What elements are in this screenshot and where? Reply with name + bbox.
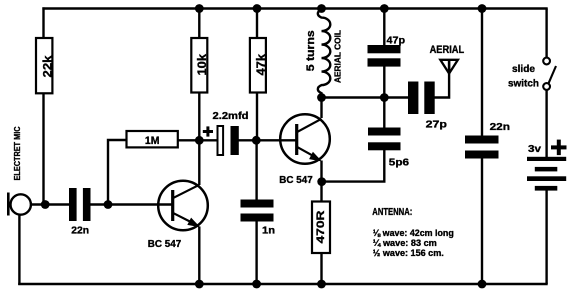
wire mic output row (31, 203, 70, 205)
svg-text:AERIAL: AERIAL (430, 44, 465, 56)
wire 1M feedback drop (108, 140, 127, 205)
node top 22n (478, 4, 487, 13)
transistor Q1 BC547 (148, 181, 208, 250)
wire bottom ground rail (18, 283, 548, 285)
electret mic M1 (8, 193, 31, 216)
node Q1 base (104, 200, 113, 209)
slide switch S1 (508, 58, 556, 90)
capacitor C5 5p6 (368, 128, 409, 169)
wire 2.2mfd to 47k node (239, 139, 257, 141)
svg-text:47p: 47p (387, 34, 406, 46)
wire left column (22k branch) (42, 7, 44, 204)
svg-text:¼ wave: 83 cm: ¼ wave: 83 cm (373, 238, 437, 248)
node ground Q1 (195, 280, 204, 289)
node Q2 collector (317, 93, 326, 102)
capacitor C7 22n (output) (465, 121, 510, 159)
svg-text:22n: 22n (490, 121, 510, 133)
wire switch to battery (545, 90, 547, 157)
wire 47p column top (383, 9, 385, 46)
wire 22n output to ground (481, 158, 483, 284)
svg-text:5p6: 5p6 (389, 156, 409, 168)
svg-text:22n: 22n (71, 224, 89, 236)
wire node to 5p6 (383, 98, 385, 129)
wire 22n output column (481, 9, 483, 136)
wire Q1 emitter to ground (198, 227, 200, 285)
wire 1n to ground (255, 221, 257, 284)
svg-text:1M: 1M (145, 135, 160, 147)
svg-text:⅛ wave: 42cm long: ⅛ wave: 42cm long (373, 228, 454, 238)
capacitor C4 47p (368, 34, 406, 66)
capacitor C3 1n (241, 200, 276, 237)
svg-text:47k: 47k (256, 53, 268, 75)
node ground 1n (252, 280, 261, 289)
wire node to 2.2mfd (199, 139, 217, 141)
wire 470R to ground (320, 253, 322, 285)
svg-text:1n: 1n (262, 224, 275, 236)
resistor 22k (36, 38, 54, 93)
resistor 10k (191, 38, 209, 93)
node top 47k (253, 4, 262, 13)
svg-text:2.2mfd: 2.2mfd (213, 111, 249, 122)
wire switch feed (545, 9, 547, 58)
inductor L1 aerial coil 5 turns (305, 10, 343, 98)
svg-text:470R: 470R (315, 210, 327, 243)
wire top supply rail (42, 7, 547, 9)
capacitor C6 27p (408, 82, 447, 131)
node top coil (317, 4, 326, 13)
wire 27p to aerial (435, 61, 450, 98)
svg-text:switch: switch (508, 78, 539, 90)
node Q2 emitter (317, 177, 326, 186)
svg-text:ANTENNA:: ANTENNA: (372, 207, 412, 218)
svg-text:10k: 10k (197, 53, 209, 75)
capacitor C1 22n (input) (69, 188, 91, 236)
svg-text:slide: slide (512, 63, 535, 75)
wire Q2 collector (320, 98, 322, 119)
node Q2 base (252, 136, 261, 145)
wire Q1 collector (198, 141, 200, 186)
svg-text:AERIAL COIL: AERIAL COIL (333, 30, 342, 83)
svg-text:ELECTRET MIC: ELECTRET MIC (12, 127, 22, 181)
svg-text:5 turns: 5 turns (305, 30, 317, 71)
svg-text:22k: 22k (42, 55, 54, 78)
node Q1 collector (195, 136, 204, 145)
wire 22n to Q1 base (90, 203, 172, 205)
node tank (380, 93, 389, 102)
wire 47k node down to 1n (255, 140, 257, 199)
node ground 470R (317, 280, 326, 289)
battery B1 3V (527, 140, 567, 191)
svg-text:BC 547: BC 547 (279, 174, 313, 186)
resistor 47k (250, 38, 268, 93)
node mic bias (41, 200, 50, 209)
antenna note text (372, 207, 454, 258)
wire 10k column (198, 9, 200, 141)
node ground 22n (478, 280, 487, 289)
wire node to Q2 base (256, 139, 296, 141)
wire battery to ground (545, 190, 547, 284)
resistor 470R (312, 202, 330, 254)
transistor Q2 BC547 (279, 114, 330, 186)
wire 1M to 10k node (178, 139, 200, 141)
aerial antenna (430, 44, 465, 74)
wire Q2 emitter (320, 161, 322, 182)
svg-text:½ wave: 156 cm.: ½ wave: 156 cm. (373, 248, 444, 258)
svg-text:27p: 27p (426, 118, 447, 130)
node top 10k (195, 4, 204, 13)
capacitor C2 2.2mfd electrolytic (203, 111, 249, 155)
wire 47p to node (383, 66, 385, 98)
resistor 1M (127, 131, 178, 147)
wire emitter to 470R (320, 182, 322, 202)
svg-text:3v: 3v (528, 143, 541, 155)
wire 47k column (256, 9, 258, 141)
node top 47p (380, 4, 389, 13)
wire collector node row (322, 96, 409, 98)
wire mic ground drop (18, 214, 20, 286)
wire emitter node row (322, 150, 385, 182)
svg-text:BC 547: BC 547 (148, 238, 182, 250)
